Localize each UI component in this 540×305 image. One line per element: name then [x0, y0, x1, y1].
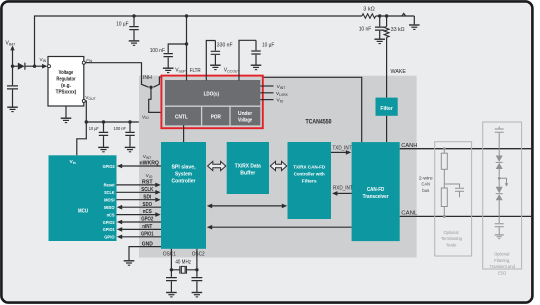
junction 33k: [385, 14, 388, 17]
ground switch: [409, 25, 420, 29]
svg-text:nINT: nINT: [142, 224, 153, 230]
svg-text:Voltage: Voltage: [238, 117, 252, 123]
resistor 33k: [384, 27, 389, 38]
pin stub VINT: [260, 85, 273, 87]
terminating resistor R lower: [441, 188, 447, 207]
svg-text:Voltage: Voltage: [59, 70, 74, 76]
svg-text:MISO: MISO: [104, 205, 115, 210]
svg-text:TX/RX Data: TX/RX Data: [235, 164, 261, 170]
LDO inner gray box: [165, 80, 260, 125]
capacitor 10nF: [379, 16, 381, 26]
transient arrow: [498, 177, 501, 180]
wire filter to transceiver: [386, 116, 388, 142]
capacitor OSC1: [170, 270, 172, 277]
svg-text:CANL: CANL: [401, 211, 417, 217]
bidirectional arrow buffer-controller: [270, 161, 286, 170]
wire FLTR stub into LDO: [205, 74, 207, 80]
svg-text:Filter: Filter: [380, 106, 393, 112]
optional filtering box: [483, 122, 522, 269]
wire VBAT node horizontal: [13, 65, 18, 67]
svg-text:RXD_INT: RXD_INT: [333, 186, 353, 192]
svg-text:10 µF: 10 µF: [262, 43, 274, 49]
wire GPO2: [122, 221, 162, 223]
wire SPI-controller double arrow: [212, 205, 283, 207]
bidirectional arrow SPI-buffer: [208, 161, 226, 170]
svg-text:RST: RST: [142, 180, 153, 186]
wire SDI: [117, 199, 157, 201]
LDO block (red highlight box): [161, 76, 262, 129]
filter block: [376, 98, 398, 116]
split termination capacitor: [444, 184, 459, 188]
ground 100nF rail: [125, 147, 136, 151]
svg-text:Reset: Reset: [104, 183, 115, 188]
MCU block: [49, 155, 117, 241]
ground 330nF: [210, 65, 221, 69]
wire VSUP: [185, 14, 188, 17]
ground MCU side: [124, 261, 135, 265]
TCAN4550 gray panel: [139, 76, 417, 258]
capacitor 100nF rail: [128, 120, 131, 123]
wire nWKRQ: [122, 165, 162, 167]
junction OSC1: [170, 268, 173, 271]
svg-text:nCS: nCS: [107, 212, 115, 217]
wire RST: [117, 184, 157, 186]
wire EN to INH: [85, 63, 148, 87]
wire VCCOUT: [239, 40, 256, 76]
svg-text:SDO: SDO: [143, 202, 153, 208]
wire VIO from INH node into LDO box: [149, 87, 162, 112]
junction top-rail drop: [33, 65, 36, 68]
svg-text:nWKRQ: nWKRQ: [139, 161, 159, 167]
svg-text:System: System: [175, 172, 193, 178]
ground ESD: [495, 235, 504, 239]
svg-text:OSC2: OSC2: [192, 251, 205, 257]
wire top rail: [35, 16, 362, 66]
wire WAKE down to filter: [386, 16, 388, 98]
wire GPIO1: [122, 236, 162, 238]
svg-text:100 nF: 100 nF: [150, 48, 165, 54]
pin VOUT: [82, 100, 85, 103]
ground 10uF rail: [98, 147, 109, 151]
svg-text:GND: GND: [142, 242, 153, 248]
svg-text:10 nF: 10 nF: [359, 27, 372, 33]
capacitor 10uF VCCOUT: [255, 40, 257, 50]
ground 10uF VCCOUT: [251, 65, 262, 69]
svg-text:Node: Node: [447, 243, 457, 248]
svg-text:CNTL: CNTL: [175, 115, 188, 121]
svg-text:GPIO3: GPIO3: [103, 164, 115, 169]
wire CANH: [400, 148, 532, 150]
junction VSUP cap: [185, 42, 188, 45]
wire nCS: [117, 214, 157, 216]
svg-text:TCAN4550: TCAN4550: [306, 118, 332, 125]
svg-text:3 kΩ: 3 kΩ: [363, 7, 375, 13]
svg-text:TXD_INT: TXD_INT: [333, 145, 352, 151]
capacitor 10uF rail: [102, 120, 105, 123]
svg-text:MOSI: MOSI: [104, 198, 115, 203]
svg-text:CANH: CANH: [401, 143, 417, 149]
capacitor 10uF top: [132, 14, 135, 17]
capacitor 330nF: [214, 41, 216, 51]
svg-text:40 MHz: 40 MHz: [175, 260, 191, 266]
svg-text:OSC1: OSC1: [163, 251, 176, 257]
svg-text:SPI slave,: SPI slave,: [172, 165, 197, 171]
TVS diode pair CANH: [498, 149, 500, 156]
ground 100nF VSUP: [163, 68, 174, 72]
svg-text:(e.g.: (e.g.: [61, 83, 71, 89]
svg-text:INH: INH: [143, 75, 152, 81]
crystal Y1 40MHz: [171, 266, 197, 274]
svg-text:Optional:: Optional:: [444, 230, 460, 235]
ground regulator: [65, 106, 67, 118]
svg-text:Under: Under: [238, 111, 252, 117]
wire RXD_INT: [337, 192, 351, 194]
svg-text:MCU: MCU: [78, 208, 88, 214]
voltage regulator U1: [48, 57, 84, 107]
svg-text:Optional:: Optional:: [494, 252, 510, 257]
svg-text:Controller: Controller: [172, 179, 196, 185]
svg-text:SCLK: SCLK: [104, 190, 115, 195]
wire VOUT rail: [77, 101, 87, 155]
diode D1: [18, 63, 25, 70]
pin stub VIO right: [260, 99, 273, 101]
svg-text:100 nF: 100 nF: [114, 126, 127, 131]
wire INH pin from LDO box: [153, 77, 161, 87]
svg-text:FLTR: FLTR: [190, 68, 201, 74]
svg-text:SCLK: SCLK: [141, 187, 153, 193]
wire termination middle: [443, 169, 445, 188]
svg-text:Buffer: Buffer: [240, 171, 255, 177]
ground OSC2 cap: [192, 293, 203, 297]
svg-text:SDI: SDI: [143, 194, 152, 200]
TX/RX CAN-FD controller block: [288, 142, 332, 219]
wire LDO to transceiver VCC: [263, 77, 362, 142]
junction CANH termination: [443, 147, 446, 150]
ground 10nF: [374, 39, 385, 43]
svg-text:nCS: nCS: [143, 209, 152, 215]
svg-text:GPIO1: GPIO1: [141, 231, 154, 237]
wire SDO: [122, 206, 162, 208]
capacitor 100nF VSUP: [168, 44, 186, 53]
switch SW1: [402, 13, 406, 16]
junction INH/EN: [149, 86, 152, 89]
wire cap rail: [86, 121, 139, 123]
resistor 3k: [362, 14, 376, 18]
svg-text:TPSxxxx): TPSxxxx): [56, 90, 77, 96]
svg-text:bus: bus: [422, 188, 429, 194]
wire TXD_INT: [331, 151, 347, 153]
svg-text:TX/RX CAN-FD: TX/RX CAN-FD: [293, 165, 326, 171]
capacitor at VBAT: [12, 66, 14, 85]
wire VCCOUT stub into LDO: [238, 74, 240, 80]
LDO cell dividers: [165, 106, 260, 125]
svg-text:330 nF: 330 nF: [217, 43, 233, 49]
junction VBAT: [11, 65, 14, 68]
pin stub VLVRX: [260, 92, 273, 94]
CAN-FD transceiver block: [352, 142, 400, 241]
wire CNTL to SPI block: [183, 125, 185, 142]
svg-text:33 kΩ: 33 kΩ: [391, 27, 405, 33]
svg-text:GPO2: GPO2: [141, 217, 153, 223]
wire transceiver to SPI: [212, 226, 352, 228]
pin VIN: [48, 65, 51, 68]
VBAT supply arrow: [10, 45, 14, 50]
wire GND: [129, 247, 161, 261]
svg-text:GPIO1: GPIO1: [103, 227, 115, 232]
pin EN: [82, 61, 85, 64]
ESD top capacitor: [498, 127, 500, 129]
svg-text:GPIO2: GPIO2: [103, 220, 115, 225]
svg-text:POR: POR: [211, 115, 222, 121]
wire CANL: [400, 215, 532, 217]
svg-text:Filtering,: Filtering,: [494, 258, 510, 263]
wire OSC1: [170, 249, 172, 270]
ground OSC1 cap: [166, 293, 177, 297]
wire SCLK: [117, 191, 157, 193]
junction OSC2: [195, 268, 198, 271]
wire VSUP stub into LDO: [186, 74, 188, 80]
ESD bottom capacitor: [498, 216, 500, 223]
svg-text:2-wire: 2-wire: [419, 175, 433, 181]
svg-text:Controller with: Controller with: [294, 172, 325, 178]
svg-text:Transceiver: Transceiver: [363, 194, 389, 200]
svg-text:Regulator: Regulator: [56, 77, 75, 83]
wire nINT: [122, 228, 162, 230]
TX/RX data buffer block: [227, 142, 269, 194]
capacitor OSC2: [196, 270, 198, 277]
svg-text:10 µF: 10 µF: [89, 126, 99, 131]
svg-text:WAKE: WAKE: [391, 69, 407, 75]
TVS diode pair CANL: [498, 180, 500, 187]
ground VBAT cap: [7, 107, 18, 111]
svg-text:GPIO: GPIO: [104, 235, 115, 240]
svg-text:EN: EN: [86, 59, 92, 65]
svg-text:LDO(s): LDO(s): [204, 91, 220, 97]
arrow into VIN: [42, 64, 47, 69]
svg-text:CAN-FD: CAN-FD: [367, 187, 385, 193]
svg-text:Transient and: Transient and: [489, 264, 515, 269]
ground 10uF top: [129, 41, 140, 45]
junction 10nF: [378, 14, 381, 17]
wire after 3k: [376, 15, 415, 17]
svg-text:CAN: CAN: [422, 182, 431, 188]
wire FLTR: [206, 41, 215, 77]
junction VOUT rail: [85, 120, 88, 123]
svg-text:ESD: ESD: [498, 270, 507, 275]
terminating resistor R upper: [443, 149, 445, 154]
optional terminating node box: [435, 142, 472, 256]
svg-text:10 µF: 10 µF: [116, 21, 128, 27]
wire OSC2: [196, 249, 198, 270]
svg-text:Terminating: Terminating: [441, 236, 462, 241]
SPI slave system controller block: [161, 142, 206, 249]
junction CANL termination: [443, 215, 446, 218]
svg-text:Filters: Filters: [302, 179, 317, 185]
